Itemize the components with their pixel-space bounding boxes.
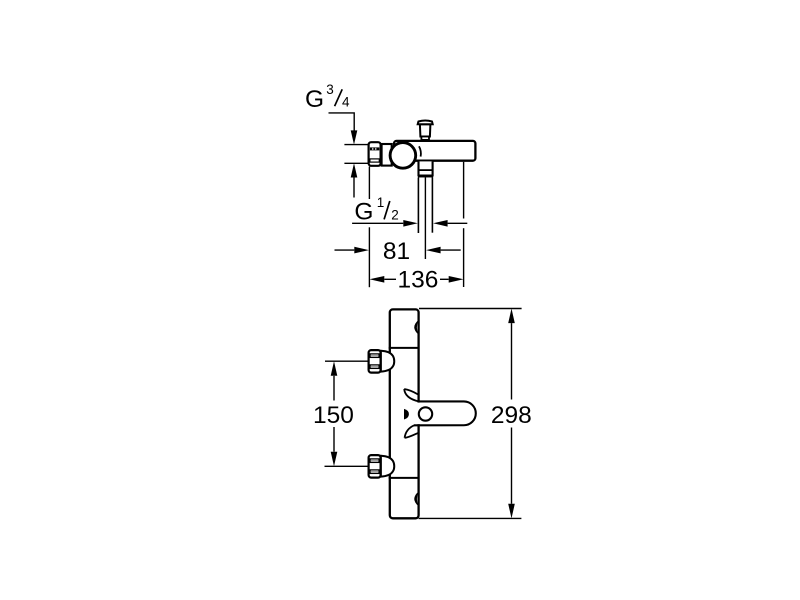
svg-text:4: 4	[342, 95, 350, 110]
svg-text:81: 81	[383, 238, 410, 265]
svg-text:136: 136	[398, 267, 439, 294]
svg-text:G: G	[354, 198, 373, 225]
svg-text:G: G	[305, 86, 324, 113]
svg-text:150: 150	[313, 402, 354, 429]
svg-text:1: 1	[377, 195, 385, 210]
svg-text:2: 2	[391, 207, 399, 222]
svg-text:298: 298	[491, 402, 532, 429]
svg-text:3: 3	[326, 82, 334, 97]
